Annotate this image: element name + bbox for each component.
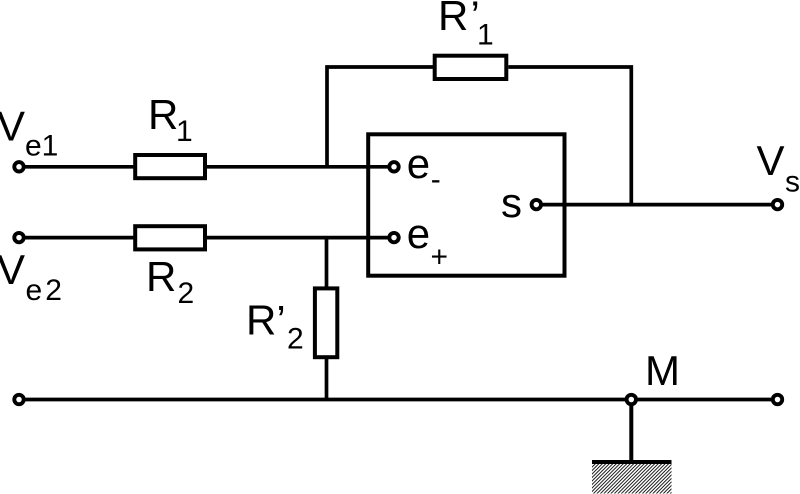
node M junction: [627, 395, 636, 404]
node: input terminal Ve1: [14, 162, 23, 171]
resistor R'2: [315, 288, 337, 357]
svg-text:M: M: [645, 347, 680, 394]
resistor R1: [135, 155, 205, 178]
wire: R1 to e- pin, junction with feedback vertical at x=327: [205, 165, 388, 169]
svg-text:e: e: [407, 140, 430, 187]
svg-text:s: s: [501, 179, 522, 226]
wire: feedback top rail right segment and right vertical down to output: [508, 67, 631, 205]
svg-text:V: V: [757, 137, 785, 184]
svg-text:e: e: [407, 210, 430, 257]
wire: R'2 down to ground rail: [325, 357, 329, 399]
svg-text:R’: R’: [246, 297, 286, 344]
node: output terminal Vs: [773, 200, 782, 209]
svg-text:s: s: [785, 166, 800, 199]
node: bottom-left terminal: [14, 395, 23, 404]
svg-text:e1: e1: [25, 130, 58, 163]
svg-text:2: 2: [178, 277, 195, 310]
wire: input Ve1 to R1: [25, 165, 135, 169]
svg-text:1: 1: [477, 19, 494, 52]
wire: input Ve2 to R2: [25, 236, 135, 240]
svg-text:+: +: [431, 240, 449, 273]
resistor R'1: [435, 56, 507, 79]
ground hatch: [592, 464, 672, 494]
wire: feedback top rail left segment: [327, 67, 435, 167]
node: bottom-right terminal: [773, 395, 782, 404]
svg-text:V: V: [0, 246, 25, 293]
ground bar: [592, 460, 672, 464]
svg-text:e: e: [26, 274, 43, 307]
pin e- of U1: [389, 162, 398, 171]
resistor R2: [135, 226, 205, 249]
svg-text:V: V: [0, 103, 25, 150]
svg-text:R: R: [148, 91, 178, 138]
svg-text:-: -: [431, 163, 441, 196]
svg-text:R: R: [438, 0, 468, 39]
wire: R2 to e+ pin, junction with R'2 branch at x=326.5: [205, 236, 388, 240]
wire: ground stub below node M: [629, 400, 633, 461]
pin s of U1: [532, 200, 541, 209]
svg-text:2: 2: [287, 322, 304, 355]
node: input terminal Ve2: [14, 233, 23, 242]
wire: output s pin to Vs terminal: [542, 203, 772, 207]
svg-text:1: 1: [176, 115, 193, 148]
wire: bottom ground rail: [25, 398, 772, 402]
svg-text:R: R: [146, 253, 176, 300]
wire: e+ node down to R'2: [325, 238, 329, 289]
op-amp box U1: [368, 134, 564, 275]
pin e+ of U1: [389, 233, 398, 242]
svg-text:2: 2: [45, 274, 62, 307]
